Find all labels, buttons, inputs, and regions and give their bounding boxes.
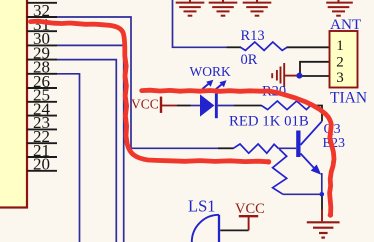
svg-text:20: 20 [33, 155, 50, 174]
svg-text:LS1: LS1 [188, 196, 216, 215]
svg-text:ANT: ANT [330, 16, 362, 33]
svg-text:3: 3 [336, 70, 344, 86]
svg-text:VCC: VCC [131, 97, 159, 112]
svg-text:2: 2 [336, 55, 344, 71]
svg-text:TIAN: TIAN [330, 90, 367, 107]
svg-text:VCC: VCC [235, 201, 265, 217]
svg-text:WORK: WORK [190, 64, 231, 79]
svg-text:R13: R13 [241, 28, 265, 44]
svg-text:RED 1K 01B: RED 1K 01B [229, 113, 309, 129]
svg-text:1: 1 [336, 38, 344, 54]
svg-text:0R: 0R [241, 52, 258, 68]
